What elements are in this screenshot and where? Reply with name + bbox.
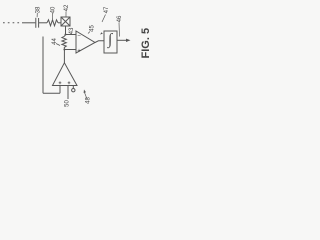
svg-text:48: 48 <box>86 97 92 104</box>
integrator box 46 <box>104 31 117 53</box>
wire middle terminal down <box>67 86 69 100</box>
feedback amp input mark left <box>59 81 62 84</box>
output arrowhead <box>126 39 131 42</box>
resistor 44 (vertical) <box>62 35 66 50</box>
svg-text:44: 44 <box>52 38 58 45</box>
wire cap to resistor <box>39 22 47 24</box>
open terminal circle <box>72 89 75 92</box>
leader line label 47 <box>102 15 106 23</box>
wire node C to op-amp non-inverting input <box>64 49 76 51</box>
wire feedback bottom horizontal <box>43 92 60 94</box>
wire feedback left vertical up to input node <box>42 37 44 94</box>
wire integrator output <box>117 39 127 41</box>
leader line label 38 <box>36 13 38 17</box>
leader line label 48 <box>85 93 88 100</box>
feedback amp input mark right <box>68 81 71 84</box>
svg-text:42: 42 <box>64 4 70 11</box>
svg-text:+: + <box>77 48 81 54</box>
mixer U1 (box with X) <box>61 17 70 26</box>
leader line label 40 <box>52 13 54 19</box>
leader line label 46 <box>118 23 121 37</box>
arrowhead label 48 <box>84 90 86 94</box>
arrowhead label 47 <box>100 32 103 34</box>
resistor 40 <box>47 20 58 26</box>
svg-text:46: 46 <box>117 15 123 22</box>
svg-text:43: 43 <box>69 27 75 34</box>
leader line label 44 <box>56 44 60 46</box>
svg-text:∫: ∫ <box>107 31 114 48</box>
svg-text:45: 45 <box>90 25 96 32</box>
feedback amp U3 (triangle up) <box>53 63 78 86</box>
leader line label 42 <box>65 12 67 17</box>
svg-text:FIG. 5: FIG. 5 <box>140 28 152 59</box>
terminal stub with open circle <box>72 86 74 89</box>
wire resistor to mixer <box>58 22 61 24</box>
wire input dashed <box>3 22 22 24</box>
wire node B to op-amp inverting input <box>66 34 77 36</box>
wire input solid <box>22 22 35 24</box>
wire node C down to feedback amp output <box>63 50 65 64</box>
wire op-amp output to integrator <box>95 41 104 43</box>
svg-text:50: 50 <box>65 100 71 107</box>
svg-text:47: 47 <box>104 6 110 13</box>
svg-text:−: − <box>77 34 81 40</box>
leader line label 45 <box>88 32 90 34</box>
wire mixer output stub down <box>65 26 67 35</box>
op-amp U2 <box>76 31 95 53</box>
svg-text:40: 40 <box>50 6 56 13</box>
wire feedback left terminal down <box>59 86 61 94</box>
junction node C <box>63 49 65 51</box>
capacitor 38 <box>36 18 39 28</box>
junction node B <box>65 34 67 36</box>
svg-text:38: 38 <box>35 6 41 13</box>
